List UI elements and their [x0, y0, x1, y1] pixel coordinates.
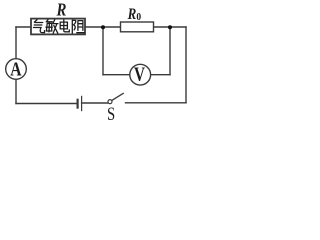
switch label S: [107, 103, 115, 124]
wire voltmeter branch left horizontal: [103, 74, 130, 76]
svg-text:R: R: [127, 6, 137, 23]
label R0: [127, 6, 137, 23]
chinese text 气敏电阻 inside box: character 气: [34, 20, 85, 34]
node junction dot left: [101, 25, 105, 29]
voltmeter letter V: [134, 63, 145, 85]
wire between boxes R and R0: [85, 26, 121, 28]
wire top-right from corner to R0: [154, 26, 187, 28]
svg-text:A: A: [10, 58, 21, 80]
chinese character 阻: [72, 20, 84, 33]
svg-text:V: V: [134, 63, 145, 85]
resistor R box (gas-sensitive resistor): [31, 19, 85, 35]
chinese character 敏: [46, 20, 58, 34]
wire voltmeter branch left vertical: [102, 27, 104, 75]
svg-text:0: 0: [136, 12, 141, 23]
svg-text:S: S: [107, 103, 115, 124]
battery negative plate (short): [76, 100, 78, 108]
chinese character 电: [60, 20, 69, 32]
node junction dot right: [168, 25, 172, 29]
switch blade: [112, 93, 123, 100]
wire top-left horizontal from ammeter branch to gas resistor box: [16, 26, 31, 28]
wire voltmeter branch right vertical: [169, 27, 171, 75]
wire switch to bottom-right corner: [126, 102, 187, 104]
wire voltmeter branch right horizontal: [151, 74, 170, 76]
wire right vertical: [185, 27, 187, 103]
switch S pivot circle: [108, 100, 112, 104]
wire bottom-left to battery: [16, 103, 77, 105]
svg-text:R: R: [56, 1, 67, 20]
ammeter letter A: [10, 58, 21, 80]
voltmeter U2 circle: [130, 64, 151, 85]
label R0 subscript 0: [136, 12, 141, 23]
battery positive plate (long): [81, 96, 83, 110]
label R (gas resistor): [56, 1, 67, 20]
wire battery to switch: [82, 102, 108, 104]
resistor R0 box: [121, 22, 154, 32]
wire left vertical through ammeter: [15, 27, 17, 104]
ammeter U1 circle: [6, 59, 27, 80]
